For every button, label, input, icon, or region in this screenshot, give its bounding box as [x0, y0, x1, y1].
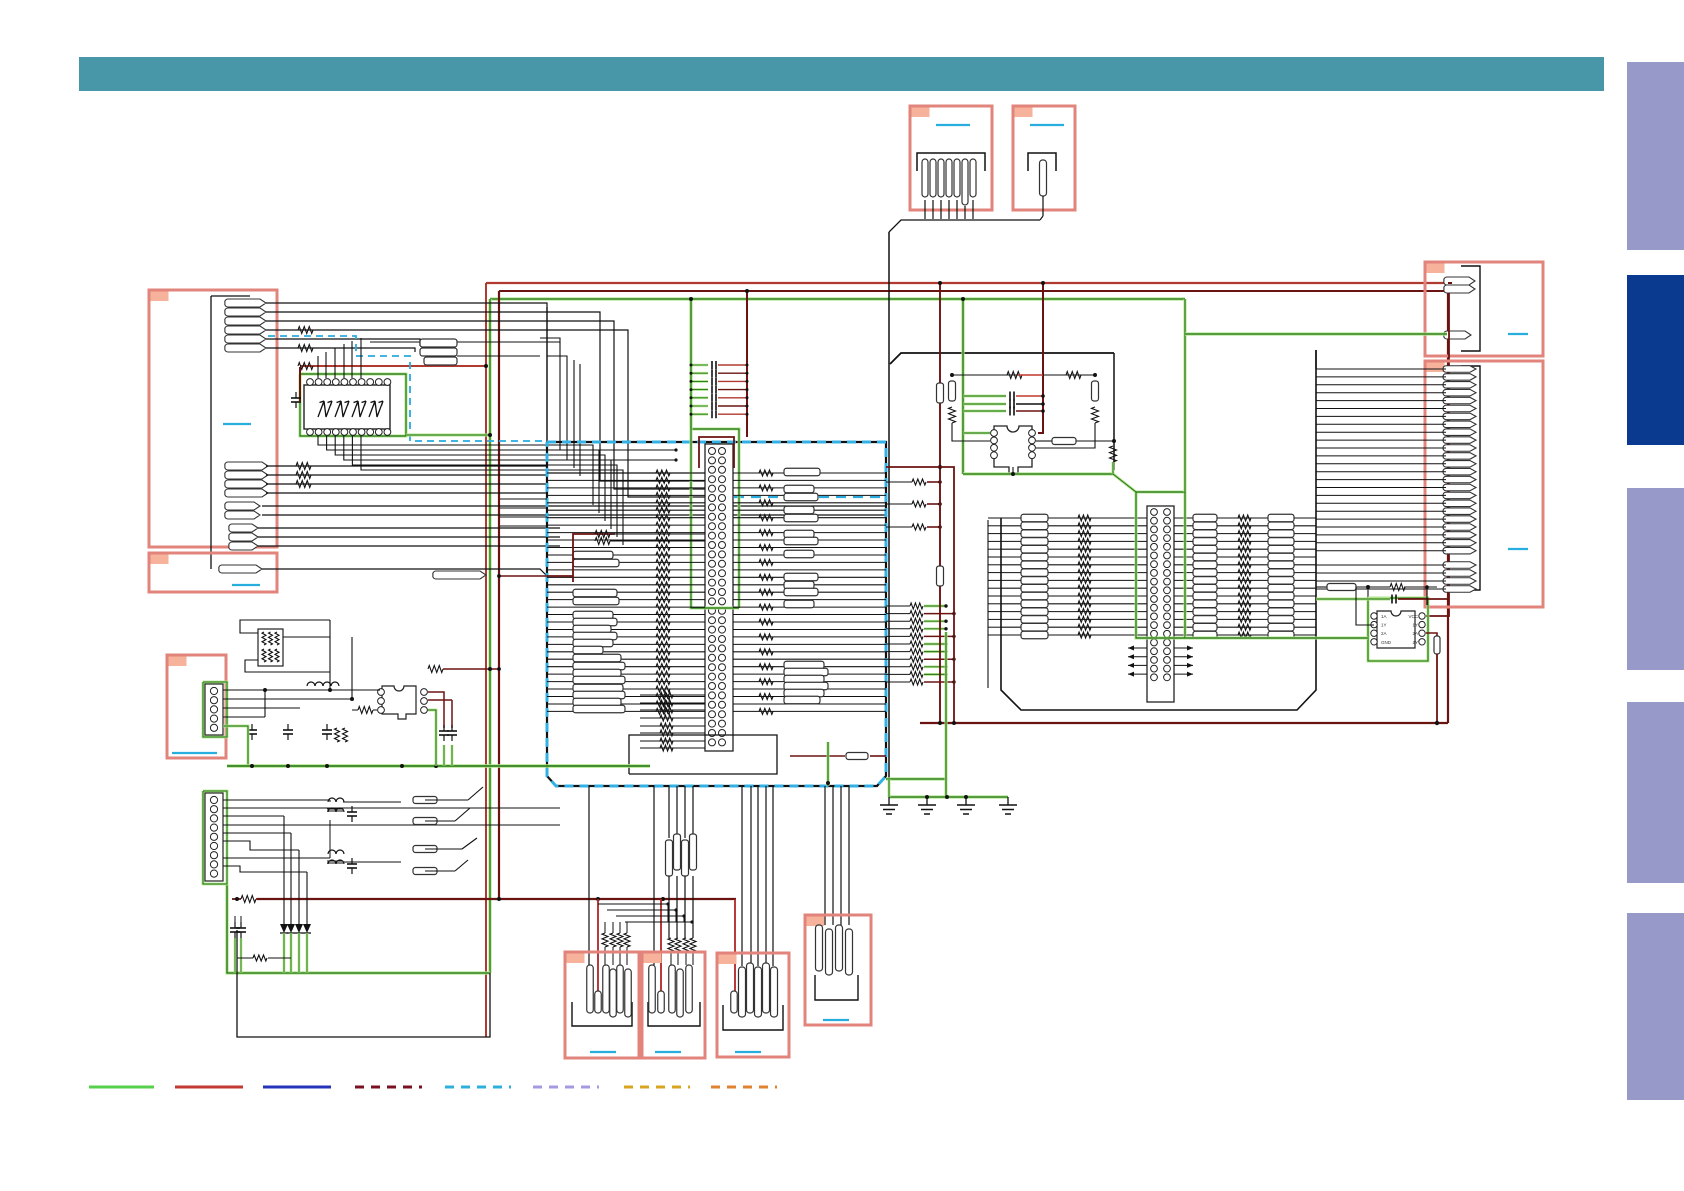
pin U1-2: [315, 429, 322, 436]
wire E pin bend: [1040, 216, 1043, 220]
wire flag G: [1316, 526, 1446, 528]
pin flag A6: [225, 344, 266, 352]
wire bottom row: [640, 694, 705, 696]
wire dark-red vertical cap-bank: [746, 291, 748, 437]
legend amber dashed: [624, 1086, 690, 1089]
wire cap tails: [234, 916, 236, 922]
pin flag A3: [225, 317, 266, 325]
net label body: [573, 597, 619, 605]
array zigzag L: [1078, 538, 1091, 544]
array resistor R: [1193, 600, 1217, 608]
wire flag G: [1316, 494, 1446, 496]
wire array feeder stub: [988, 603, 1001, 605]
wire J-BL r8: [223, 866, 307, 872]
pin flag D2: [930, 159, 936, 197]
wire green J-C to bus: [223, 726, 248, 766]
wire U3 in3: [352, 709, 358, 711]
pin U2-5: [1419, 639, 1425, 645]
connector box CN-J: [642, 952, 705, 1058]
wire red drop I: [597, 899, 599, 991]
pin flag J3: [669, 965, 676, 1013]
pin flag G9: [1443, 429, 1476, 436]
wire row R: [733, 666, 886, 668]
wire red vertical bus left: [485, 283, 487, 1037]
array resistor R2: [1268, 545, 1294, 553]
array zigzag R: [1238, 632, 1251, 638]
capacitor bank cap: [711, 402, 713, 410]
array zigzag L: [1078, 570, 1091, 576]
pin flag D7: [970, 159, 976, 197]
wire row R: [733, 696, 886, 698]
sidebar tab 2 (active): [1627, 275, 1684, 445]
pin flag A14: [229, 533, 258, 541]
pin flag E1: [1040, 160, 1047, 196]
resistor zigzag mid: [656, 485, 670, 491]
svg-text:1Y: 1Y: [1381, 623, 1387, 628]
connector J-C pins: [210, 687, 217, 694]
pin flag A13: [229, 524, 258, 532]
wire green stub low: [924, 605, 946, 608]
wire flag G: [1316, 431, 1446, 433]
wire dark-red U3: [428, 692, 444, 728]
pin T1-L3: [991, 444, 998, 451]
pin flag K6: [771, 967, 778, 1017]
wire green cap stub: [691, 388, 708, 391]
pin flag A9: [225, 480, 268, 488]
transformer T1 body: [994, 426, 1032, 473]
resistor body T1: [1052, 438, 1076, 445]
wire row L: [547, 636, 705, 638]
resistor zigzag R: [759, 604, 773, 610]
wire row L: [547, 517, 705, 519]
junction: [1425, 585, 1429, 589]
resistor zigzag mid: [656, 582, 670, 588]
legend blue solid: [263, 1086, 331, 1089]
wire row R: [733, 554, 886, 556]
wire T1 ground: [1012, 467, 1014, 474]
junction: [745, 289, 749, 293]
resistor zigzag v: [949, 407, 956, 423]
pin flag A1: [225, 299, 266, 307]
connector box CN-A2: [149, 553, 277, 592]
net flag on wire: [433, 571, 486, 579]
wire zig tail: [604, 922, 606, 933]
array arrow L: [1128, 647, 1147, 649]
capacitor bank cap: [711, 394, 713, 402]
dark-red frame J-center: [699, 437, 734, 468]
array zigzag L: [1078, 554, 1091, 560]
wire flag G: [1316, 572, 1446, 574]
wire green inner bottom: [547, 764, 637, 767]
pin flag H4: [846, 929, 853, 975]
wire dark-red stub low: [924, 613, 954, 615]
wire dark-red stub low: [924, 658, 954, 660]
array row wire R: [1173, 595, 1316, 597]
verticals to diodes: [283, 816, 285, 924]
wire cap right: [1016, 403, 1043, 405]
bracket in CN-E: [1028, 153, 1056, 171]
wire J-BL r2: [223, 807, 560, 809]
wire row R: [733, 539, 886, 541]
resistor zigzag drop I: [617, 933, 623, 947]
pin U3-L1: [378, 689, 385, 696]
wire drop single: [588, 786, 590, 965]
wire black vertical frame right: [1113, 353, 1115, 470]
resistor zigzag: [1007, 372, 1022, 379]
net label body: [573, 551, 613, 559]
wire dark-red stub low: [924, 635, 954, 637]
array row wire: [1001, 564, 1148, 566]
wire RP1 top: [240, 620, 330, 633]
pin U1-1: [307, 429, 314, 436]
wire row R: [733, 614, 886, 616]
pin flag F1: [1444, 277, 1475, 285]
junction: [938, 502, 942, 506]
wire U1 top pin: [334, 348, 336, 378]
wire row R: [733, 547, 886, 549]
pin flag I1: [587, 965, 594, 1013]
wire bottom row: [640, 732, 705, 734]
wire flag G: [1316, 447, 1446, 449]
wire row L: [547, 703, 705, 705]
pin flag A12: [225, 511, 260, 519]
array resistor L: [1021, 538, 1048, 546]
resistor pack RP1: [258, 629, 283, 666]
array zigzag L: [1078, 515, 1091, 521]
pin flag G17: [1443, 492, 1476, 499]
resistor zigzag bottom: [660, 745, 673, 751]
resistor body v U2: [1434, 636, 1440, 654]
pin flag G21: [1443, 524, 1476, 531]
net label body: [573, 669, 621, 677]
pin flag G6: [1443, 405, 1476, 412]
resistor zigzag mid: [656, 545, 670, 551]
wire array feeder stub: [988, 533, 1001, 535]
bracket CN-I: [572, 1002, 632, 1026]
wire row to IC: [1316, 586, 1327, 588]
inverter arrow: [352, 401, 366, 417]
resistor zigzag exit low: [910, 649, 923, 655]
resistor zigzag pair: [335, 728, 340, 742]
wire row exit low: [886, 673, 910, 675]
junction: [497, 897, 501, 901]
wire drop J bundle: [653, 786, 655, 965]
resistor zigzag mid: [656, 619, 670, 625]
wire green down to frame: [1112, 462, 1115, 474]
wire black vertical left-edge feed: [546, 307, 548, 441]
wire flag G: [1316, 415, 1446, 417]
wire black U2 jog: [1426, 587, 1428, 605]
array row wire: [1001, 579, 1148, 581]
wire U1 top pin: [351, 341, 353, 378]
wire row L: [547, 621, 705, 623]
pin flag K1: [731, 991, 738, 1013]
net label body: [573, 589, 617, 597]
junction: [952, 635, 955, 638]
junction: [944, 642, 947, 645]
array resistor L: [1021, 553, 1048, 561]
junction: [690, 413, 693, 416]
wire drop H bundle: [840, 786, 842, 925]
wire row L: [547, 539, 705, 541]
RP1 zigzags: [262, 632, 266, 645]
junction: [690, 405, 693, 408]
resistor body on rail: [937, 566, 944, 586]
wire: [258, 527, 560, 529]
net label body R: [784, 573, 818, 581]
array zigzag R: [1238, 570, 1251, 576]
pin T1-L4: [991, 452, 998, 459]
pin U3-L3: [378, 707, 385, 714]
bracket CN-G: [1461, 366, 1480, 590]
wire from CN-A: [266, 312, 706, 481]
net label body R: [784, 581, 814, 589]
wire dark-red out: [886, 467, 954, 723]
wire BL res: [343, 801, 401, 803]
wire dark-red vertical: [1038, 283, 1043, 433]
wire row L: [547, 547, 705, 549]
net label body R: [784, 689, 824, 697]
resistor zigzag exit: [912, 524, 926, 530]
transformer TR-b: [328, 850, 336, 854]
wire green stub low: [924, 673, 946, 676]
resistor zigzag mid: [656, 522, 670, 528]
pin U1-11: [384, 379, 391, 386]
dark-red feed U1: [299, 367, 301, 401]
pin flag H2: [826, 929, 833, 975]
capacitor C-e: [451, 725, 453, 731]
wire row L: [547, 524, 705, 526]
wire array feeder stub: [988, 626, 1001, 628]
resistor body V1: [937, 383, 944, 403]
pin flag K3: [747, 963, 754, 1013]
net label body: [573, 632, 617, 640]
array zigzag R: [1238, 554, 1251, 560]
resistor body V3: [1092, 381, 1099, 401]
resistor zigzag exit low: [910, 671, 923, 677]
wire pin drop: [964, 206, 966, 219]
wire green ground rail: [889, 795, 1008, 798]
wire green block corner: [886, 777, 947, 780]
array zigzag R: [1238, 523, 1251, 529]
net label body R: [784, 675, 824, 683]
wire drop J bundle: [668, 786, 670, 838]
wire row L: [547, 487, 705, 489]
wire dark-red zig right: [443, 668, 490, 670]
wire dark-red U2: [1426, 633, 1437, 654]
wire row R: [733, 606, 886, 608]
svg-text:1A: 1A: [1381, 614, 1387, 619]
wire row R: [733, 487, 886, 489]
resistor zigzag R: [759, 545, 773, 551]
array resistor R: [1193, 623, 1217, 631]
junction: [689, 297, 693, 301]
pin U1-18: [324, 379, 331, 386]
resistor zigzag: [1390, 584, 1405, 591]
array zigzag R: [1238, 585, 1251, 591]
connector box CN-A: [149, 290, 277, 547]
resistor zigzag mid: [656, 559, 670, 565]
array zigzag L: [1078, 632, 1091, 638]
wire U1 bottom pin: [318, 436, 593, 505]
array zigzag R: [1238, 593, 1251, 599]
pin flag G12: [1443, 453, 1476, 460]
wire row R: [733, 524, 886, 526]
array zigzag R: [1238, 624, 1251, 630]
wire flag G: [1316, 580, 1446, 582]
junction: [488, 667, 492, 671]
pin U1-6: [350, 429, 357, 436]
junction: [497, 667, 501, 671]
pin flag G13: [1443, 461, 1476, 468]
connector J-BL body: [205, 793, 223, 881]
svg-text:2A: 2A: [1412, 631, 1418, 636]
bracket CN-F: [1461, 266, 1480, 351]
junction: [952, 658, 955, 661]
wire cap stub right: [718, 413, 747, 415]
array row wire R: [1173, 533, 1316, 535]
array row wire R: [1173, 564, 1316, 566]
junction: [944, 627, 947, 630]
wire U1 bottom pin: [327, 436, 599, 513]
resistor zigzag R: [759, 559, 773, 565]
array arrow L: [1128, 673, 1147, 675]
wire cap stub right: [718, 397, 747, 399]
wire row R: [733, 479, 886, 481]
wire green cap stub: [691, 405, 708, 408]
junction: [938, 480, 942, 484]
pin flag J2: [658, 991, 665, 1013]
sidebar tab 4: [1627, 702, 1684, 883]
wire array feeder stub: [988, 548, 1001, 550]
net label body R: [784, 485, 814, 493]
resistor zigzag exit low: [910, 618, 923, 624]
wire diag join: [468, 787, 483, 800]
wire flag G: [1316, 423, 1446, 425]
wire dark-red rail x940: [939, 283, 941, 723]
wire array feeder stub: [988, 556, 1001, 558]
array zigzag L: [1078, 609, 1091, 615]
wire row exit low: [886, 635, 910, 637]
array resistor R: [1193, 577, 1217, 585]
wire row R: [733, 688, 886, 690]
wire drop cont: [684, 876, 686, 938]
wire into block v4: [579, 364, 581, 476]
pin U1-12: [375, 379, 382, 386]
net label body R: [784, 682, 828, 690]
array arrow R: [1174, 647, 1193, 649]
wire green diode tail: [283, 933, 286, 973]
wire green U1 to bus: [406, 434, 490, 437]
junction: [944, 673, 947, 676]
wire zig tail: [626, 922, 628, 933]
capacitor bank cap: [711, 369, 713, 377]
wire row R: [733, 673, 886, 675]
wire green cap stub: [691, 413, 708, 416]
array zigzag L: [1078, 601, 1091, 607]
array resistor L: [1021, 623, 1048, 631]
wire pin drop: [932, 200, 934, 219]
junction: [1011, 472, 1015, 476]
wire green diode tail: [298, 933, 301, 973]
wire stair: [607, 910, 676, 922]
wire stub rows into bus: [500, 498, 547, 500]
IC U2 body: [1377, 611, 1415, 648]
junction: [925, 795, 929, 799]
wire RP1 b: [245, 660, 330, 672]
wire drop cont: [668, 876, 670, 938]
net label body R: [784, 514, 818, 522]
pin flag G24: [1443, 547, 1476, 554]
pin flag J1: [649, 965, 656, 1013]
main IC block outline (cyan dashed): [547, 442, 886, 786]
wire row L: [547, 599, 705, 601]
array row wire R: [1173, 525, 1316, 527]
resistor zigzag mid: [656, 612, 670, 618]
wire bottom row: [640, 747, 705, 749]
array row wire: [1001, 618, 1148, 620]
net label body: [573, 646, 603, 654]
wire green diode tail: [306, 933, 309, 973]
capacitor C-h: [351, 806, 353, 812]
capacitor: [1009, 407, 1011, 416]
resistor zigzag mid: [656, 627, 670, 633]
wire bottom row: [640, 725, 705, 727]
inverter arrow: [318, 401, 332, 417]
wire array feeder stub: [988, 579, 1001, 581]
inverter arrow: [335, 401, 349, 417]
array row wire R: [1173, 540, 1316, 542]
resistor zigzag R: [759, 530, 773, 536]
array zigzag L: [1078, 616, 1091, 622]
wire from CN-A mid: [266, 474, 547, 476]
sidebar tab 3: [1627, 488, 1684, 670]
array resistor R2: [1268, 608, 1294, 616]
wire U1 rows right2: [457, 355, 540, 357]
array arrow R: [1174, 673, 1193, 675]
wire array feeder vertical: [987, 520, 989, 688]
wire green T1 in: [963, 432, 990, 435]
wire array feeder stub: [988, 618, 1001, 620]
pin U2-4: [1371, 639, 1377, 645]
resistor zigzag R: [759, 649, 773, 655]
wire flag G: [1316, 368, 1446, 370]
net label body R: [784, 696, 820, 704]
net label body R: [784, 468, 820, 476]
pin flag G1: [1443, 366, 1476, 373]
resistor zigzag bottom: [660, 730, 673, 736]
wire RP1 right: [283, 636, 330, 638]
pin flag D1: [922, 159, 928, 197]
wire row R: [733, 561, 886, 563]
legend dark-red dashed: [355, 1086, 422, 1089]
array row wire R: [1173, 618, 1316, 620]
resistor zigzag mid: [656, 515, 670, 521]
wire from CN-A: [266, 321, 706, 489]
pin flag A2-1: [219, 565, 262, 573]
resistor zigzag R: [759, 470, 773, 476]
resistor body BL2: [413, 818, 437, 825]
array resistor R2: [1268, 584, 1294, 592]
wire green stub low: [924, 650, 946, 653]
pin U1-10: [384, 429, 391, 436]
wire green stub U2 cap: [1316, 598, 1390, 601]
wire J-BL r6: [223, 841, 299, 850]
wire pin drop: [956, 200, 958, 219]
array resistor L: [1021, 545, 1048, 553]
power frame green J-center: [691, 429, 739, 608]
pin flag I5: [617, 965, 624, 1013]
